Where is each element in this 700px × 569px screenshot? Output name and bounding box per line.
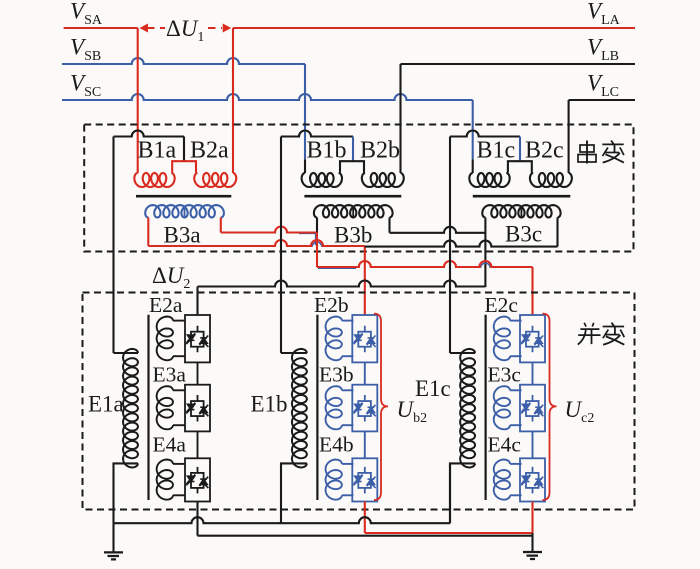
wire red drop to E2c converter	[531, 267, 533, 315]
winding E2b coil	[342, 320, 354, 322]
wire red B3a-left lower horizontal	[148, 240, 364, 246]
winding B1b primary coil black	[302, 173, 342, 187]
bridge between B1a and B2a red	[172, 161, 196, 172]
wire E4c chain bottom red stub	[531, 502, 533, 534]
wire blue drop from V_SB to B1b	[304, 64, 306, 159]
tap wire group-a horizontal with hop	[114, 131, 185, 137]
svg-text:ΔU2: ΔU2	[152, 263, 190, 292]
core bar shunt transformer-b	[316, 315, 318, 500]
wire E1a top connection	[114, 352, 139, 354]
svg-text:VLA: VLA	[587, 0, 621, 28]
core bar shunt transformer-a	[147, 315, 149, 500]
svg-text:Uc2: Uc2	[565, 397, 595, 426]
wire bottom red bus	[365, 532, 533, 534]
wire ground-a drop	[112, 523, 114, 552]
wire B3b right end down	[388, 218, 390, 233]
svg-text:E3b: E3b	[319, 363, 354, 387]
core bar transformer-a series	[136, 195, 231, 198]
series transformer dashed box	[84, 125, 633, 252]
thyristor converter E2c	[520, 315, 545, 362]
wire bottom bus2 black	[198, 535, 533, 537]
parallel transformer dashed box	[83, 293, 635, 510]
winding B2a primary coil red	[194, 173, 236, 187]
wire E1b bottom connection	[281, 463, 307, 523]
winding E3c coil	[510, 389, 521, 391]
winding E1c shunt primary coil	[460, 349, 475, 468]
winding B3b secondary coil black	[314, 205, 393, 217]
svg-text:E4a: E4a	[153, 433, 187, 457]
svg-text:Ub2: Ub2	[397, 397, 428, 426]
wire black B3b-right to B3c-left	[390, 227, 486, 233]
core bar transformer-b series	[304, 195, 401, 198]
wire B3c right end down	[556, 218, 558, 247]
wire red drop from V_SA to B2a	[232, 28, 234, 173]
svg-text:E2c: E2c	[485, 293, 518, 317]
wire red lower distribution to E2c	[317, 261, 533, 267]
wire E1a bottom connection	[114, 463, 139, 523]
winding B3b center tick	[352, 208, 354, 218]
svg-text:B1b: B1b	[307, 138, 347, 164]
winding E4a coil	[173, 463, 185, 465]
winding B3c secondary coil black	[482, 205, 560, 217]
thyristor converter E3c	[520, 385, 545, 432]
core bar transformer-c series	[473, 195, 571, 198]
wire stub between E3a and E4a	[197, 431, 199, 458]
svg-text:E2b: E2b	[314, 293, 349, 317]
tap vertical phase-c	[449, 137, 451, 354]
winding B3c center tick	[520, 208, 522, 218]
svg-text:E1b: E1b	[251, 392, 288, 417]
wire E4a chain bottom stub to bus2	[196, 502, 198, 536]
svg-text:B1a: B1a	[138, 138, 177, 164]
wire B3a right end red down	[220, 218, 222, 233]
wire deltaU2 horizontal	[198, 281, 486, 287]
wire V_LA red phase-A load bus	[233, 27, 635, 29]
svg-text:E3a: E3a	[153, 363, 187, 387]
label chuanbian (series transformer)	[578, 141, 624, 164]
svg-text:B3a: B3a	[164, 223, 201, 248]
wire V_SB blue phase-B source bus with hops	[62, 58, 305, 64]
wire ground-c drop	[531, 533, 533, 552]
winding E1a shunt primary coil	[123, 349, 138, 468]
winding E3b coil	[342, 389, 354, 391]
wire V_SA red phase-A source bus	[64, 27, 138, 29]
svg-text:B2b: B2b	[360, 138, 400, 164]
wire E1c bottom corner	[449, 463, 451, 523]
svg-text:E1c: E1c	[415, 376, 451, 401]
label bingbian (parallel transformer)	[578, 323, 625, 345]
svg-text:B3b: B3b	[334, 223, 372, 248]
wire stub between E3b and E4b	[364, 431, 366, 458]
tap wire group-b vertical blue segment	[352, 137, 354, 162]
annotation deltaU1 dashed arrows	[147, 27, 222, 29]
thyristor converter E3b	[352, 385, 377, 432]
winding E2c coil	[510, 320, 521, 322]
winding E4c coil	[510, 463, 521, 465]
svg-text:B3c: B3c	[505, 222, 542, 247]
wire stub between E2b and E3b	[364, 362, 366, 384]
svg-text:VLB: VLB	[587, 35, 619, 65]
wire stub between E3c and E4c	[532, 431, 534, 458]
winding E4b coil	[342, 463, 354, 465]
thyristor converter E4b	[352, 458, 377, 501]
svg-text:VSB: VSB	[70, 35, 101, 65]
winding E3a coil	[173, 389, 185, 391]
wire red B3a-right to B3b-left upper	[221, 227, 317, 233]
ground symbol right	[523, 552, 542, 559]
wire V_LB black phase-B load bus	[401, 63, 636, 65]
wire blue shadow arcs in hops	[312, 242, 490, 268]
tap wire group-a vertical to bridge	[183, 137, 185, 162]
wire black continuation to B1c coil	[472, 159, 474, 173]
core bar shunt transformer-c	[485, 315, 487, 500]
wire bottom bus1 with hops	[114, 517, 451, 523]
thyristor converter E4a	[185, 458, 210, 501]
winding B1c primary coil black	[469, 173, 509, 187]
tap vertical phase-a	[112, 137, 114, 354]
thyristor converter E3a	[185, 385, 210, 432]
tap vertical phase-b	[280, 137, 282, 354]
bracket Ub2 red brace	[374, 314, 388, 500]
wire E4b chain bottom red stub	[364, 502, 366, 534]
svg-text:B2a: B2a	[190, 138, 229, 164]
svg-text:E2a: E2a	[149, 293, 183, 317]
wire E1b top connection	[281, 352, 307, 354]
wire red drop to E2b converter	[364, 246, 366, 315]
wire black drop from V_LC to B2c	[568, 100, 570, 173]
wire black B3c-right return line	[365, 241, 558, 247]
wire V_LC black phase-C load bus	[569, 99, 635, 101]
wire E2a chain top stub	[196, 287, 198, 316]
wire stub between E2a and E3a	[197, 362, 199, 384]
svg-text:B2c: B2c	[525, 138, 564, 164]
svg-text:VSA: VSA	[70, 0, 103, 28]
svg-text:ΔU1: ΔU1	[166, 16, 204, 45]
svg-text:VSC: VSC	[70, 71, 101, 101]
svg-text:E4b: E4b	[319, 433, 354, 457]
thyristor converter E2a	[185, 315, 210, 362]
tap wire group-c horizontal with hop	[450, 131, 520, 137]
thyristor converter E2b	[352, 315, 377, 362]
wire B3b left end down to junction	[316, 218, 318, 233]
wire blue drop from V_SC to B1c	[472, 100, 474, 159]
svg-text:VLC: VLC	[587, 71, 619, 101]
winding B2b primary coil black	[362, 173, 404, 187]
winding E1b shunt primary coil	[292, 349, 307, 468]
wire E1c bottom connection	[450, 463, 475, 523]
bracket Uc2 red brace	[543, 314, 557, 500]
wire blue shadow under red upper segment	[299, 233, 356, 268]
wire B3c left end vertical down to deltaU2 line	[484, 218, 486, 288]
bridge between B1c and B2c black	[508, 161, 532, 172]
tap wire group-c vertical blue segment	[519, 137, 521, 162]
ground symbol left	[104, 552, 123, 559]
wire red drop from V_SA to B1a	[137, 28, 139, 173]
winding B3a secondary coil blue	[145, 205, 224, 217]
wire black continuation to B1b coil	[304, 159, 306, 173]
winding B2c primary coil black	[530, 173, 572, 187]
thyristor converter E4c	[520, 458, 545, 501]
winding E2a coil	[173, 320, 185, 322]
svg-text:E1a: E1a	[88, 392, 124, 417]
winding B3a center tick	[184, 208, 186, 218]
wire black drop from V_LB to B2b	[399, 64, 401, 173]
winding B1a primary coil red	[134, 173, 174, 187]
wire B3a left end red down	[147, 218, 149, 247]
svg-text:B1c: B1c	[477, 138, 516, 164]
wire E1c top connection	[450, 352, 475, 354]
svg-text:E4c: E4c	[488, 433, 521, 457]
bridge between B1b and B2b black	[340, 161, 364, 172]
tap wire group-b horizontal with hop	[281, 131, 353, 137]
wire stub between E2c and E3c	[532, 362, 534, 384]
wire red vertical at B3b-left going down	[316, 233, 318, 268]
svg-text:E3c: E3c	[488, 363, 521, 387]
wire V_SC blue phase-C source bus with hops	[62, 94, 473, 100]
